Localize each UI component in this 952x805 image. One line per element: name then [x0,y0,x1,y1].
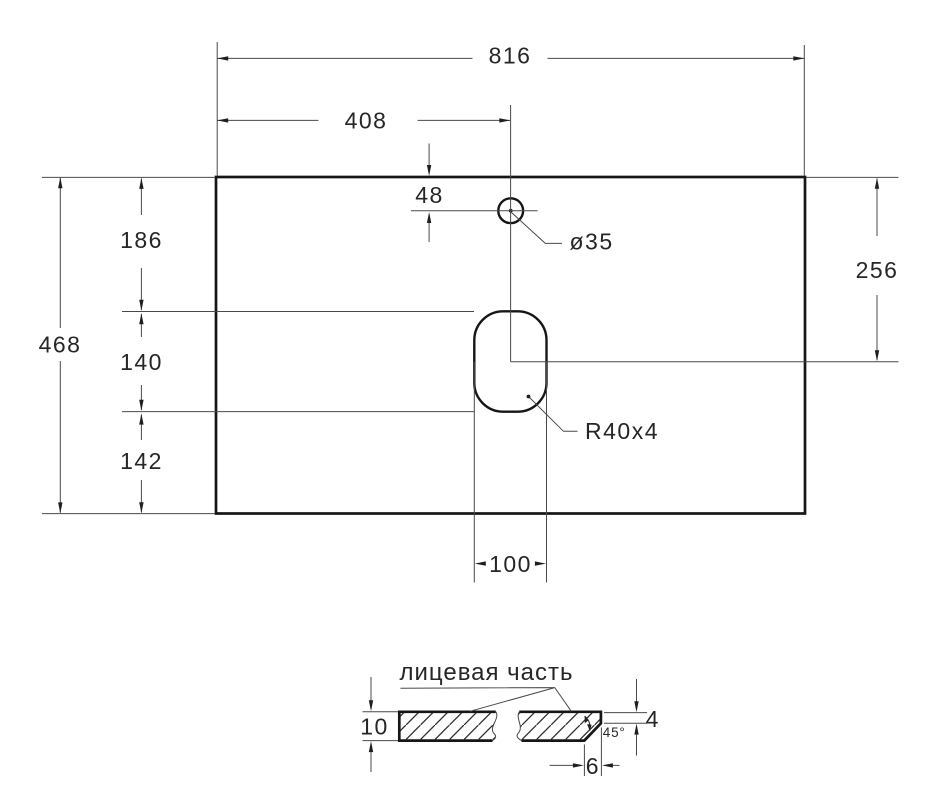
dimension 100 [475,551,546,577]
extension line top right vertical [803,45,805,176]
dimension 408 [217,107,510,133]
extension line top left vertical [216,42,218,176]
dimension 10 [360,677,398,772]
section left piece [399,712,497,741]
extension line bottom-left horizontal [42,513,215,515]
dimension 4 [604,679,660,756]
extension line top-right horizontal [806,176,898,178]
svg-text:6: 6 [586,753,600,779]
svg-text:408: 408 [345,107,388,133]
dimension 142 [120,414,163,514]
dimension 186 [120,178,163,311]
svg-text:816: 816 [489,43,532,69]
horizontal centerline to right dimension [511,361,899,363]
angle 45 arc [585,716,592,731]
faucet hole ø35 [498,198,523,223]
dimension 468 [39,177,82,513]
dimension 6 [550,728,620,779]
svg-text:4: 4 [646,706,660,732]
section right piece [517,712,601,741]
svg-text:10: 10 [360,713,389,739]
svg-text:R40x4: R40x4 [585,418,659,444]
faucet hole center dot [509,209,513,213]
svg-text:100: 100 [489,551,532,577]
vertical centerline [510,105,512,362]
extension line top-left horizontal [42,176,215,178]
svg-text:468: 468 [39,332,82,358]
svg-text:256: 256 [856,257,899,283]
dimension 48 [415,144,444,243]
extension line below oval right [546,362,548,583]
leader lizevaya chast [401,688,572,712]
extension line oval top [122,311,474,313]
extension line oval bottom [122,411,474,413]
extension line below oval left [473,362,475,583]
dimension 140 [120,313,163,411]
svg-text:186: 186 [120,227,163,253]
cable hole R40x4 [474,311,546,411]
leader dot R40x4 [527,395,531,399]
leader R40x4 [529,397,578,432]
svg-text:140: 140 [120,349,163,375]
svg-text:лицевая часть: лицевая часть [399,659,573,686]
svg-text:45°: 45° [603,725,626,740]
svg-text:142: 142 [120,448,163,474]
dimension 816 [217,43,804,69]
dimension 256 [856,178,899,361]
svg-text:48: 48 [415,182,444,208]
leader ø35 [512,213,563,244]
countertop outline [216,177,805,514]
svg-text:ø35: ø35 [570,229,614,255]
horizontal centerline through circle [411,210,538,212]
